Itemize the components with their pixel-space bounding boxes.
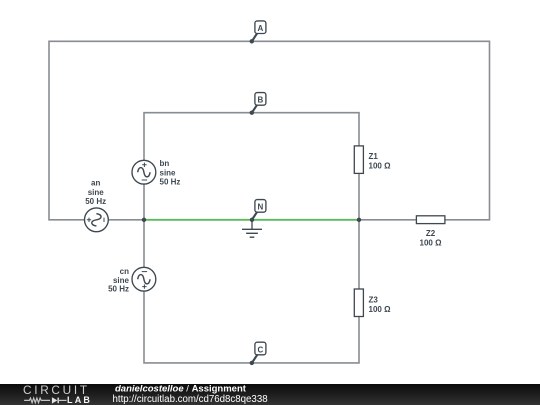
resistor Z2	[416, 216, 445, 224]
svg-text:Z2: Z2	[426, 229, 436, 238]
svg-text:B: B	[258, 96, 264, 105]
wire: net N highlighted green	[144, 219, 359, 221]
svg-text:N: N	[258, 203, 264, 212]
svg-text:sine: sine	[160, 168, 177, 177]
junction node at Z1/Z3/Z2 common	[357, 218, 361, 222]
wire: N junction to Z2 left terminal	[359, 219, 416, 221]
svg-text:50 Hz: 50 Hz	[85, 197, 106, 206]
svg-text:an: an	[91, 179, 100, 188]
node flag N	[250, 200, 266, 222]
node flag A	[250, 21, 266, 44]
svg-text:LAB: LAB	[67, 395, 92, 405]
voltage source V2 bn	[132, 160, 156, 184]
svg-text:Z1: Z1	[369, 152, 379, 161]
resistor Z3	[354, 289, 363, 317]
svg-text:C: C	[258, 345, 264, 354]
CircuitLab logo	[23, 383, 92, 405]
svg-text:sine: sine	[113, 276, 130, 285]
svg-text:danielcostelloe / Assignment: danielcostelloe / Assignment	[115, 383, 247, 394]
svg-text:bn: bn	[160, 159, 170, 168]
wire: an right terminal to N junction	[108, 219, 144, 221]
svg-text:A: A	[258, 24, 264, 33]
svg-text:50 Hz: 50 Hz	[160, 178, 181, 187]
svg-text:Z3: Z3	[369, 296, 379, 305]
resistor Z1	[354, 146, 363, 174]
junction node at an/bn/cn common	[142, 218, 146, 222]
voltage source V3 cn (flipped)	[132, 267, 156, 291]
voltage source V1 an (rotated)	[85, 208, 109, 232]
svg-text:http://circuitlab.com/cd76d8c8: http://circuitlab.com/cd76d8c8qe338	[113, 394, 268, 405]
svg-text:50 Hz: 50 Hz	[108, 285, 129, 294]
svg-text:100 Ω: 100 Ω	[369, 305, 392, 314]
wire: net C (cn bottom, across, up through Z3 to N junction)	[144, 220, 359, 363]
node flag B	[250, 93, 266, 115]
wire: net B (bn top, across, down through Z1 to N junction)	[144, 113, 359, 220]
node flag C	[250, 342, 266, 365]
svg-text:100 Ω: 100 Ω	[420, 238, 443, 247]
ground	[242, 220, 262, 237]
svg-text:cn: cn	[120, 267, 129, 276]
svg-text:sine: sine	[88, 188, 105, 197]
wire: net A outer loop (left, top, right, to Z2 right terminal)	[49, 41, 490, 220]
svg-text:100 Ω: 100 Ω	[369, 161, 392, 170]
